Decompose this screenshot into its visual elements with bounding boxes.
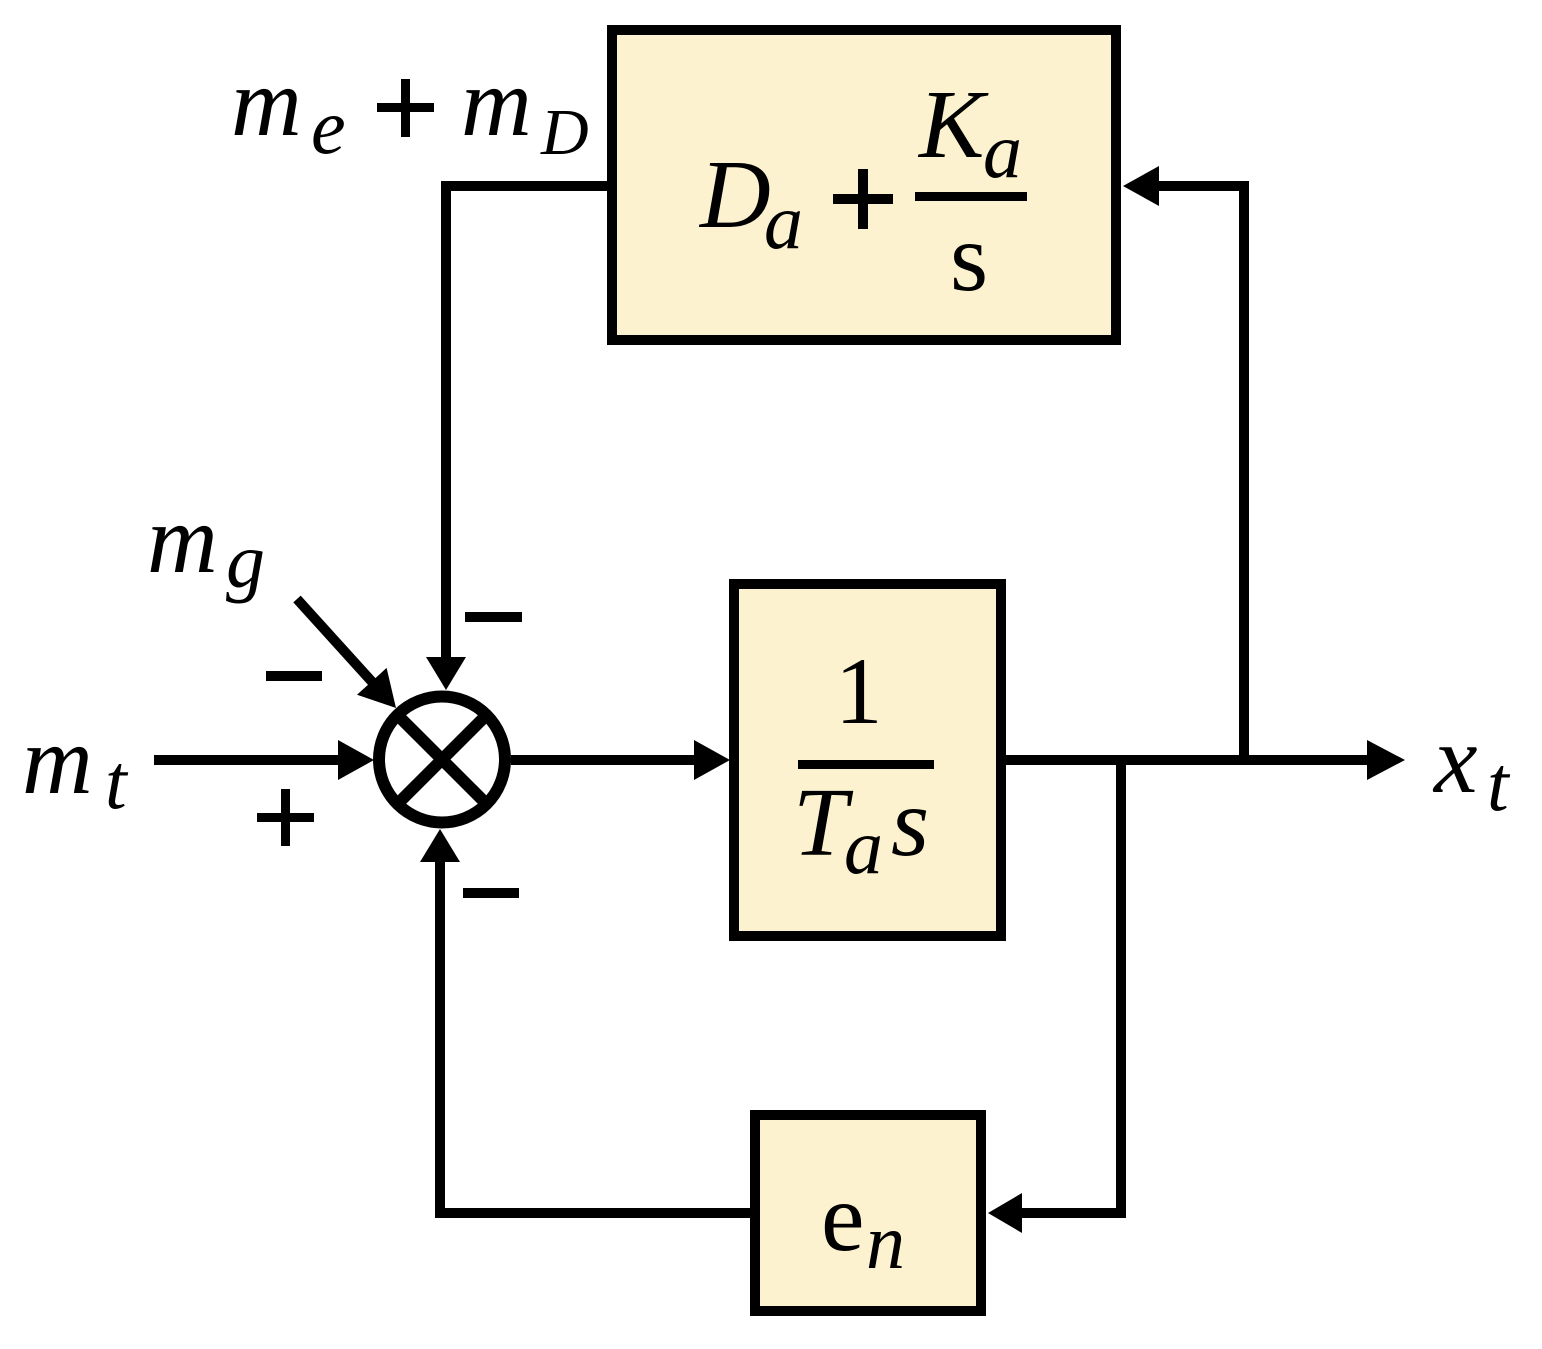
svg-text:m: m <box>461 49 532 157</box>
svg-text:D: D <box>698 141 771 249</box>
block G2 (integrator 1/(T_a s)) <box>734 584 1001 936</box>
sign - (m_g input) <box>266 671 322 681</box>
summing junction S1 <box>373 691 511 829</box>
svg-text:a: a <box>844 803 883 890</box>
wire: feedback from node A up to G1 input <box>1123 166 1249 765</box>
input label m_g <box>147 486 265 604</box>
wire: G2 output to x_t with arrow <box>1003 740 1405 780</box>
svg-text:D: D <box>540 96 589 169</box>
svg-text:m: m <box>22 707 93 815</box>
sign + (m_t input) <box>257 789 314 846</box>
svg-text:m: m <box>231 49 302 157</box>
wire: G3 output left then up into summing junction <box>420 829 750 1218</box>
svg-text:K: K <box>917 71 989 179</box>
svg-text:t: t <box>105 738 129 825</box>
input label m_t <box>22 707 129 825</box>
wire: m_g diagonal input arrow <box>297 599 396 708</box>
wire: summing junction to G2 input <box>511 740 730 780</box>
svg-text:a: a <box>983 107 1022 194</box>
output label x_t <box>1432 706 1511 827</box>
node label m_e + m_D <box>231 49 589 170</box>
svg-text:x: x <box>1432 706 1478 814</box>
wire: feedback from node B down to G3 input <box>988 755 1126 1233</box>
svg-text:e: e <box>821 1164 865 1272</box>
svg-text:s: s <box>891 769 929 877</box>
svg-text:m: m <box>147 486 218 594</box>
svg-text:e: e <box>311 83 346 170</box>
svg-text:g: g <box>226 517 265 604</box>
svg-text:1: 1 <box>835 638 883 744</box>
svg-text:t: t <box>1487 740 1511 827</box>
wire: G1 output left then down to summing junction <box>426 181 607 690</box>
wire: m_t input into summing junction <box>154 740 374 780</box>
block G3 (feedback gain e_n) <box>755 1115 981 1311</box>
svg-text:a: a <box>764 178 803 265</box>
svg-text:s: s <box>950 204 988 312</box>
sign - (bottom feedback into summing junction) <box>463 888 519 898</box>
svg-text:n: n <box>866 1198 905 1285</box>
block G1 (damping/gain D_a + K_a/s) <box>612 30 1116 340</box>
sign - (top feedback into summing junction) <box>465 612 522 622</box>
